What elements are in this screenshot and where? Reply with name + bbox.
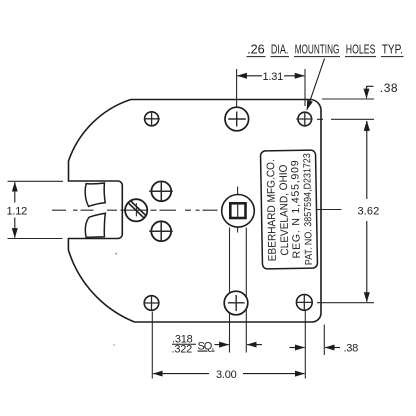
svg-text:3.00: 3.00 bbox=[216, 369, 237, 381]
svg-text:.322: .322 bbox=[172, 344, 193, 356]
svg-text:EBERHARD MFG.CO.: EBERHARD MFG.CO. bbox=[265, 159, 279, 261]
svg-text:REG. N 1,455,909: REG. N 1,455,909 bbox=[289, 160, 303, 258]
svg-text:.38: .38 bbox=[380, 81, 398, 95]
svg-text:MOUNTING: MOUNTING bbox=[295, 42, 340, 57]
svg-text:.26: .26 bbox=[247, 42, 265, 57]
svg-text:1.12: 1.12 bbox=[7, 206, 28, 218]
svg-text:HOLES: HOLES bbox=[346, 42, 376, 57]
svg-text:.38: .38 bbox=[344, 343, 359, 355]
svg-text:DIA.: DIA. bbox=[271, 42, 289, 57]
svg-text:1.31: 1.31 bbox=[263, 71, 284, 83]
svg-text:TYP.: TYP. bbox=[382, 42, 403, 57]
svg-text:SQ.: SQ. bbox=[198, 341, 215, 353]
svg-text:PAT. NO. 3857594,D231723: PAT. NO. 3857594,D231723 bbox=[302, 153, 315, 266]
svg-text:3.62: 3.62 bbox=[358, 206, 380, 218]
